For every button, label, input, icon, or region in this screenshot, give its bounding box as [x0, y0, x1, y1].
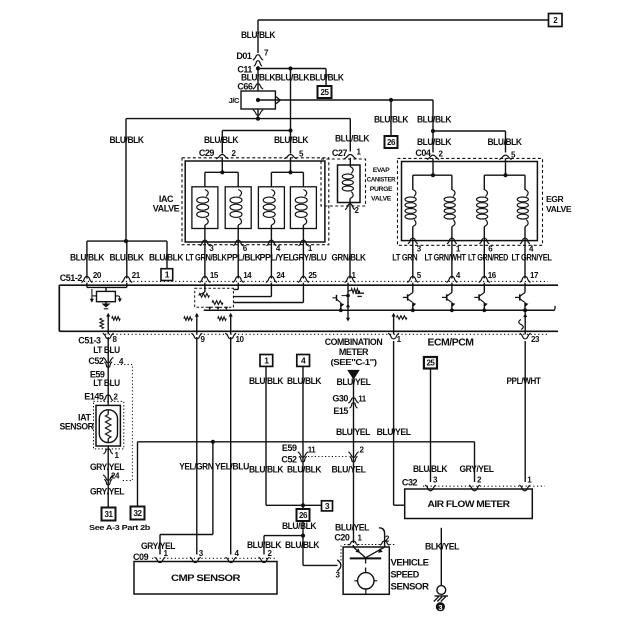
svg-text:1: 1: [264, 355, 269, 365]
svg-text:17: 17: [530, 271, 539, 280]
svg-text:EGR: EGR: [546, 194, 565, 204]
svg-text:10: 10: [236, 335, 245, 344]
svg-text:LT GRN: LT GRN: [392, 252, 417, 262]
svg-text:GRY/YEL: GRY/YEL: [90, 462, 125, 472]
svg-text:BLU/BLK: BLU/BLK: [275, 73, 310, 83]
svg-text:C32: C32: [402, 478, 418, 488]
svg-text:SPEED: SPEED: [391, 570, 420, 580]
svg-text:BLU/BLK: BLU/BLK: [287, 376, 322, 386]
svg-text:BLU/BLK: BLU/BLK: [417, 137, 452, 147]
svg-text:VEHICLE: VEHICLE: [391, 558, 429, 568]
svg-text:24: 24: [111, 472, 120, 481]
svg-text:LT GRN/YEL: LT GRN/YEL: [512, 252, 553, 262]
svg-text:METER: METER: [339, 347, 369, 357]
svg-text:ECM/PCM: ECM/PCM: [428, 338, 474, 349]
svg-text:3: 3: [438, 603, 442, 612]
svg-text:G30: G30: [332, 394, 348, 404]
svg-text:VALVE: VALVE: [371, 196, 392, 203]
svg-text:YEL/GRN: YEL/GRN: [179, 461, 213, 471]
svg-text:PPL/YEL: PPL/YEL: [260, 252, 295, 262]
svg-text:C09: C09: [133, 552, 149, 562]
svg-text:BLU/BLK: BLU/BLK: [310, 73, 345, 83]
svg-text:BLU/BLK: BLU/BLK: [249, 465, 284, 475]
svg-text:C66: C66: [237, 82, 253, 92]
svg-text:C04: C04: [415, 148, 431, 158]
svg-text:PPL/BLK: PPL/BLK: [227, 252, 262, 262]
svg-text:LT GRN/RED: LT GRN/RED: [468, 252, 509, 262]
svg-text:BLU/BLK: BLU/BLK: [285, 540, 320, 550]
svg-text:SENSOR: SENSOR: [60, 422, 95, 432]
svg-text:CMP SENSOR: CMP SENSOR: [171, 573, 241, 583]
svg-text:25: 25: [426, 359, 435, 368]
svg-text:BLU/BLK: BLU/BLK: [335, 134, 370, 144]
svg-text:LT BLU: LT BLU: [93, 378, 120, 388]
svg-text:BLU/BLK: BLU/BLK: [149, 252, 184, 262]
svg-text:AIR FLOW METER: AIR FLOW METER: [428, 499, 511, 509]
svg-text:BLU/BLK: BLU/BLK: [287, 465, 322, 475]
svg-text:BLU/BLK: BLU/BLK: [417, 115, 452, 125]
svg-text:GRY/YEL: GRY/YEL: [90, 487, 125, 497]
svg-text:C52: C52: [281, 455, 297, 465]
svg-text:BLU/BLK: BLU/BLK: [374, 115, 409, 125]
svg-text:BLU/BLK: BLU/BLK: [241, 30, 276, 40]
svg-text:GRY/YEL: GRY/YEL: [141, 541, 176, 551]
svg-text:PURGE: PURGE: [370, 186, 393, 193]
svg-text:VALVE: VALVE: [546, 204, 572, 214]
svg-text:23: 23: [531, 335, 540, 344]
svg-text:15: 15: [210, 271, 219, 280]
svg-text:BLU/BLK: BLU/BLK: [274, 135, 309, 145]
svg-text:11: 11: [358, 395, 367, 404]
svg-text:BLK/YEL: BLK/YEL: [425, 542, 460, 552]
svg-text:J/C: J/C: [229, 96, 240, 105]
svg-text:BLU/YEL: BLU/YEL: [336, 427, 371, 437]
svg-text:21: 21: [132, 271, 141, 280]
svg-text:25: 25: [321, 88, 330, 97]
svg-text:C51-2: C51-2: [60, 273, 83, 283]
svg-text:26: 26: [299, 511, 308, 520]
svg-text:E59: E59: [282, 443, 297, 453]
svg-text:VALVE: VALVE: [153, 204, 180, 214]
svg-text:C29: C29: [199, 148, 215, 158]
svg-text:SENSOR: SENSOR: [391, 582, 430, 592]
svg-text:31: 31: [105, 510, 114, 519]
svg-text:BLU/BLK: BLU/BLK: [282, 521, 317, 531]
svg-text:IAC: IAC: [159, 194, 174, 204]
svg-text:26: 26: [387, 138, 396, 147]
svg-text:BLU/BLK: BLU/BLK: [110, 252, 145, 262]
svg-text:C27: C27: [332, 148, 348, 158]
svg-text:GRY/YEL: GRY/YEL: [460, 464, 495, 474]
svg-text:E145: E145: [84, 392, 104, 402]
svg-text:4: 4: [301, 355, 306, 365]
svg-text:C52: C52: [88, 356, 104, 366]
svg-text:BLU/BLK: BLU/BLK: [70, 252, 105, 262]
svg-text:14: 14: [243, 271, 252, 280]
svg-text:COMBINATION: COMBINATION: [325, 337, 383, 347]
svg-text:CANISTER: CANISTER: [367, 177, 396, 184]
svg-text:BLU/BLK: BLU/BLK: [110, 135, 145, 145]
svg-text:C20: C20: [334, 533, 350, 543]
svg-text:E15: E15: [333, 406, 348, 416]
svg-text:(SEE"C-1"): (SEE"C-1"): [331, 357, 378, 367]
svg-text:EVAP: EVAP: [373, 167, 390, 174]
svg-text:YEL/BLU: YEL/BLU: [215, 461, 249, 471]
svg-text:BLU/BLK: BLU/BLK: [247, 540, 282, 550]
svg-text:GRN/BLK: GRN/BLK: [332, 252, 367, 262]
svg-text:See A-3 Part 2b: See A-3 Part 2b: [89, 523, 151, 532]
svg-text:BLU/YEL: BLU/YEL: [335, 523, 370, 533]
svg-text:LT GRN/WHT: LT GRN/WHT: [425, 252, 467, 262]
svg-text:BLU/BLK: BLU/BLK: [413, 464, 448, 474]
svg-text:BLU/BLK: BLU/BLK: [204, 135, 239, 145]
svg-text:20: 20: [93, 271, 102, 280]
svg-text:BLU/BLK: BLU/BLK: [488, 137, 523, 147]
svg-text:32: 32: [134, 509, 143, 518]
svg-text:D01: D01: [236, 51, 252, 61]
svg-text:11: 11: [308, 446, 317, 455]
svg-text:BLU/YEL: BLU/YEL: [332, 465, 367, 475]
svg-text:LT BLU: LT BLU: [93, 345, 120, 355]
svg-text:PPL/WHT: PPL/WHT: [507, 376, 542, 386]
svg-text:LT GRN/BLK: LT GRN/BLK: [186, 252, 228, 262]
svg-text:24: 24: [276, 271, 285, 280]
svg-text:25: 25: [308, 271, 317, 280]
svg-text:1: 1: [165, 270, 170, 280]
svg-text:GRY/BLU: GRY/BLU: [293, 252, 327, 262]
svg-text:16: 16: [488, 271, 497, 280]
svg-text:BLU/YEL: BLU/YEL: [337, 377, 372, 387]
svg-text:3: 3: [325, 501, 330, 511]
